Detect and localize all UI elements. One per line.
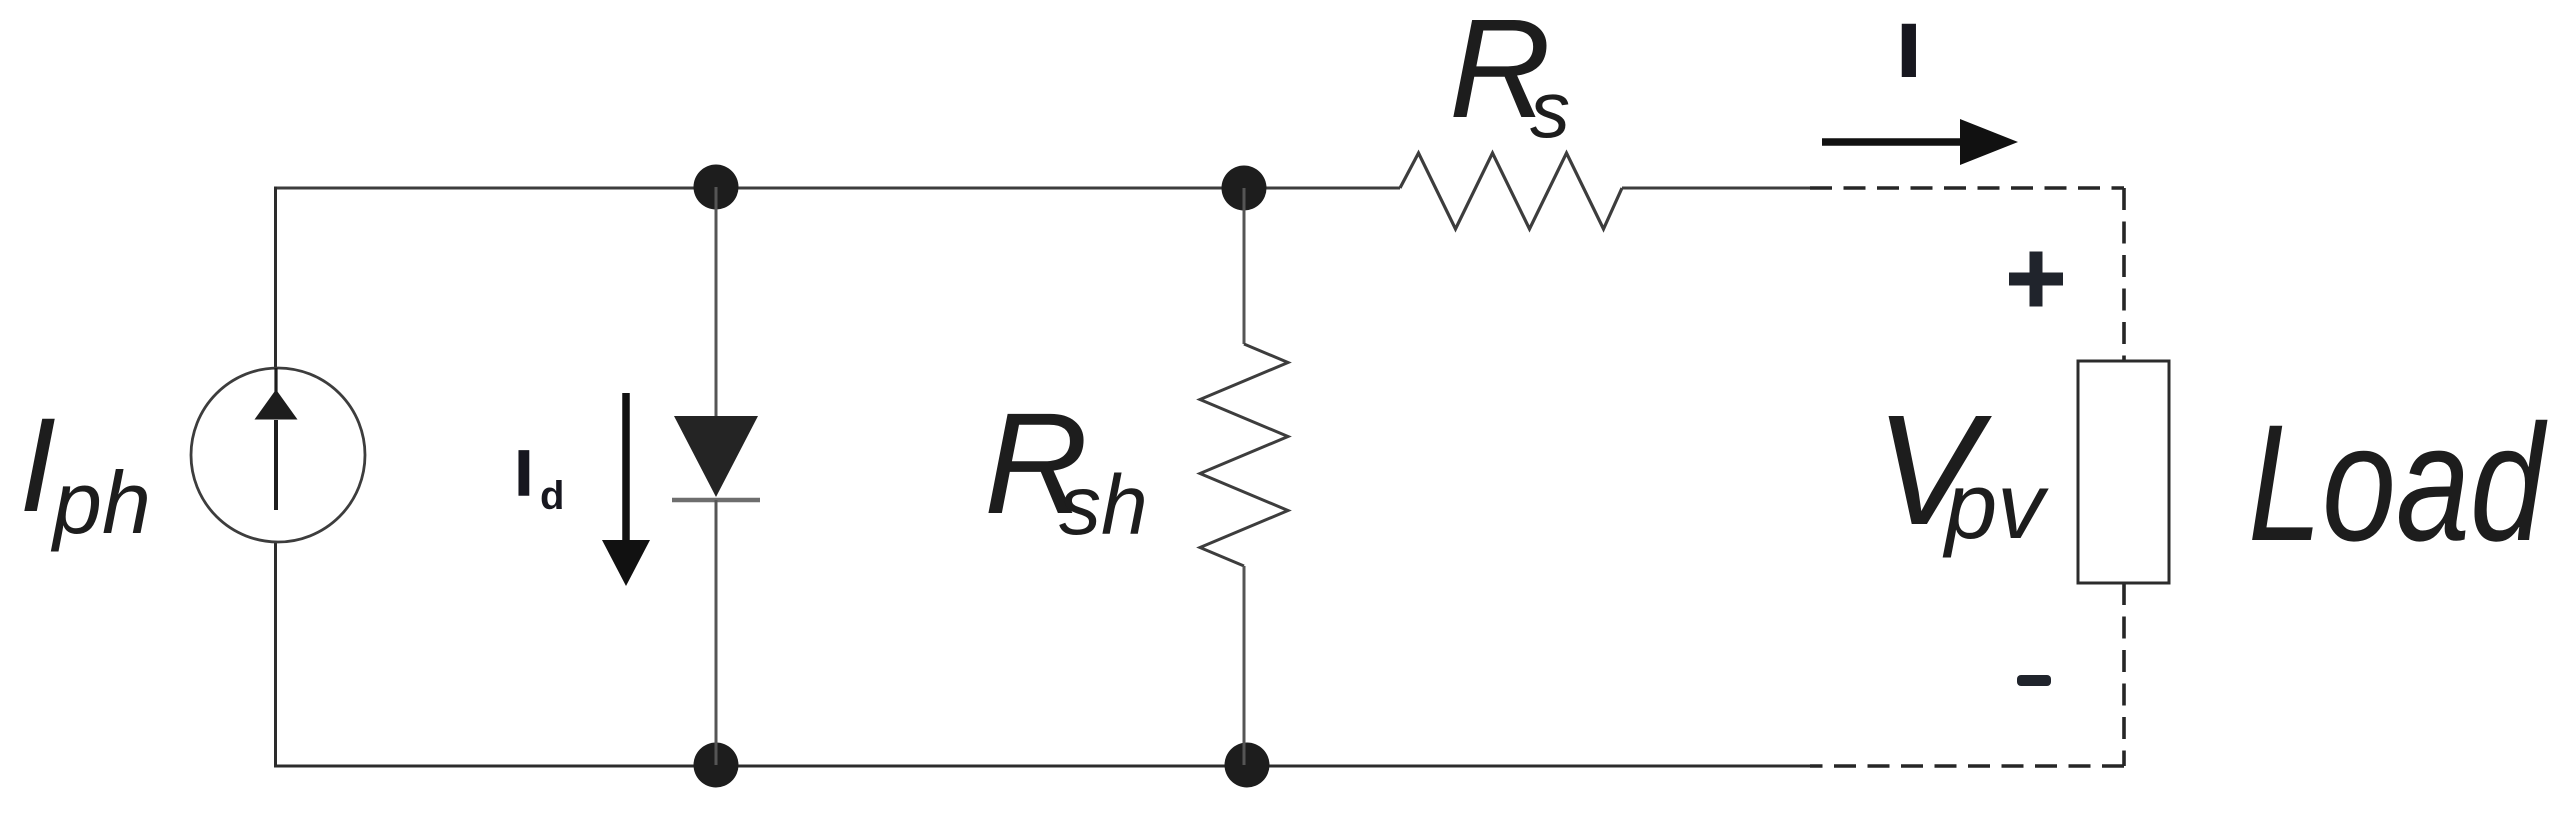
svg-text:s: s [1530,65,1570,154]
load rectangle [2078,361,2169,583]
svg-text:ph: ph [50,453,151,552]
svg-text:I: I [19,391,56,540]
current Id arrow shaft [622,393,630,540]
wire diode cathode [715,500,718,765]
diode D1 cathode bar [672,498,760,503]
node A top-left junction dot [694,165,739,210]
minus sign [2017,675,2051,686]
wire bottom rail solid [276,765,1811,768]
diode D1 triangle [674,416,758,497]
wire top rail dashed to load [1810,186,2124,190]
wire top rail solid [276,187,1401,190]
wire bottom rail dashed [1810,764,2124,768]
wire left rail lower [274,542,277,768]
wire Rsh top [1243,188,1246,344]
current source arrow shaft [274,420,278,510]
resistor Rs zigzag [1400,153,1622,229]
wire Rsh bottom [1243,566,1246,765]
svg-text:pv: pv [1942,453,2049,558]
resistor Rsh zigzag [1200,344,1288,566]
wire left rail upper [274,187,277,369]
current I arrow head [1960,119,2018,165]
svg-text:I: I [515,437,533,509]
wire top rail solid right of Rs [1622,187,1810,190]
svg-text:d: d [540,474,564,518]
current source U1 circle [191,368,365,542]
svg-text:I: I [1899,12,1919,91]
node D bottom Rsh junction dot [1225,743,1270,788]
wire right side dashed upper [2122,188,2126,361]
svg-text:Load: Load [2248,391,2548,576]
current source arrow shaft upper stub [274,368,277,392]
plus sign [2009,252,2063,307]
wire diode anode [715,187,718,416]
wire right side dashed lower [2122,583,2126,766]
node C top Rsh junction dot [1222,166,1267,211]
current Id arrow head [602,540,650,586]
svg-text:sh: sh [1059,458,1148,552]
current I arrow shaft [1822,138,1962,146]
node B bottom-left junction dot [694,743,739,788]
current source arrow head [255,390,298,420]
